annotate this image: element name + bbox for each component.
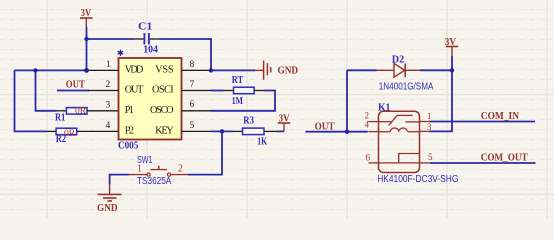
junction D2/3V: [450, 68, 454, 72]
pin 4: [368, 131, 378, 133]
wire C1 left: [87, 38, 135, 40]
svg-text:COM_IN: COM_IN: [481, 110, 519, 122]
pin 2: [368, 121, 378, 123]
diode D2: [377, 63, 421, 77]
svg-text:1N4001G/SMA: 1N4001G/SMA: [379, 81, 434, 92]
svg-text:RT: RT: [232, 75, 243, 86]
svg-text:5: 5: [428, 152, 433, 162]
pin 1: [420, 121, 430, 123]
wire COM_IN: [430, 121, 536, 123]
svg-text:GND: GND: [278, 65, 299, 77]
svg-text:1M: 1M: [232, 96, 243, 107]
wire pin8 to GND: [211, 69, 255, 71]
pin 3: [420, 130, 430, 132]
pin 2: [88, 90, 119, 92]
wire VDD row: [15, 69, 90, 71]
wire COM_OUT: [430, 162, 536, 164]
wire SW1 riser: [188, 131, 222, 174]
wire riser to D2: [346, 70, 348, 131]
junction pin8: [209, 68, 213, 72]
svg-text:VSS: VSS: [155, 65, 174, 76]
pin 5: [420, 162, 431, 164]
svg-text:OUT: OUT: [125, 85, 144, 96]
wire pin7 to RT: [211, 90, 224, 92]
IC pin names: [125, 65, 174, 137]
svg-text:7: 7: [190, 80, 195, 90]
pin 6: [182, 110, 212, 112]
svg-text:1: 1: [106, 60, 111, 70]
pin 1: [89, 69, 119, 71]
wire SW1 to GND: [110, 175, 129, 185]
svg-text:KEY: KEY: [155, 126, 174, 137]
svg-text:OUT: OUT: [66, 79, 86, 91]
svg-text:8: 8: [190, 60, 195, 70]
relay internals: step to pin5: [399, 154, 420, 163]
wire KEY row: [211, 130, 233, 132]
svg-text:K1: K1: [378, 102, 390, 113]
resistor R2: [47, 128, 119, 139]
svg-text:P1: P1: [125, 105, 134, 116]
wire drop to R1: [36, 70, 57, 110]
svg-text:P2: P2: [125, 126, 134, 137]
junction VDD/3V: [84, 68, 89, 73]
wire OUT stub: [57, 90, 89, 92]
junction 3V / C1: [84, 37, 88, 41]
wire 3V riser to VDD row: [86, 27, 88, 70]
svg-text:3: 3: [427, 122, 432, 132]
svg-text:VDD: VDD: [125, 65, 144, 76]
svg-text:3: 3: [106, 101, 111, 111]
svg-text:4: 4: [365, 120, 370, 130]
ground GND (right of IC): [255, 61, 298, 80]
power 3V (at R3): [278, 112, 291, 131]
svg-text:R1: R1: [55, 113, 65, 124]
svg-text:R2: R2: [56, 134, 66, 145]
svg-text:COM_OUT: COM_OUT: [481, 152, 528, 164]
wire drop to relay pin3: [430, 70, 453, 131]
label *: [118, 50, 123, 55]
wire 3V to junction: [451, 56, 453, 70]
resistor R3: [233, 128, 277, 135]
op IC U1 C005 body: [119, 58, 182, 140]
relay K1: [365, 110, 434, 172]
svg-text:HK4100F-DC3V-SHG: HK4100F-DC3V-SHG: [377, 174, 458, 185]
svg-text:OSCI: OSCI: [152, 85, 174, 96]
wire RT loop to pin6: [211, 91, 275, 111]
wire OUT to relay: [306, 131, 368, 133]
pin 6: [369, 162, 379, 164]
svg-text:6: 6: [366, 153, 371, 163]
pin 5: [182, 130, 212, 132]
svg-text:0R: 0R: [75, 107, 87, 117]
switch SW1: [129, 163, 189, 176]
power 3V (left): [80, 7, 93, 27]
wire left drop to R2: [15, 70, 47, 131]
junction OUT/D2: [345, 130, 349, 134]
svg-text:TS3625A: TS3625A: [137, 176, 172, 187]
svg-text:1: 1: [427, 111, 432, 121]
wire D2 cathode to 3V: [420, 69, 452, 71]
ground GND (bottom): [97, 185, 122, 214]
svg-text:OUT: OUT: [315, 121, 335, 133]
pin 8: [182, 69, 212, 71]
svg-text:104: 104: [143, 45, 159, 56]
svg-text:4: 4: [106, 121, 111, 131]
capacitor C1: [134, 33, 160, 45]
svg-text:OSCO: OSCO: [150, 105, 174, 116]
svg-text:2: 2: [178, 163, 183, 174]
junction KEY/SW1: [220, 129, 224, 133]
svg-text:D2: D2: [392, 54, 404, 65]
svg-text:C1: C1: [138, 22, 152, 33]
svg-text:R3: R3: [243, 116, 254, 127]
svg-text:5: 5: [190, 121, 195, 131]
junction R1 riser: [33, 68, 37, 72]
svg-text:2: 2: [106, 80, 111, 90]
relay internals: coil: [379, 131, 391, 133]
svg-text:1K: 1K: [257, 136, 267, 147]
resistor RT: [224, 87, 265, 94]
svg-text:6: 6: [190, 100, 195, 110]
svg-text:GND: GND: [97, 202, 118, 214]
pin 7: [182, 90, 212, 92]
power 3V (right): [445, 36, 458, 56]
svg-text:C005: C005: [118, 141, 138, 152]
wire R3 to 3V: [277, 130, 285, 132]
wire C1 right to pin8 riser: [160, 39, 212, 70]
relay internals: switch blade: [379, 121, 392, 123]
wire to D2 anode: [347, 69, 377, 71]
svg-text:SW1: SW1: [137, 155, 153, 166]
resistor R1: [57, 107, 119, 117]
